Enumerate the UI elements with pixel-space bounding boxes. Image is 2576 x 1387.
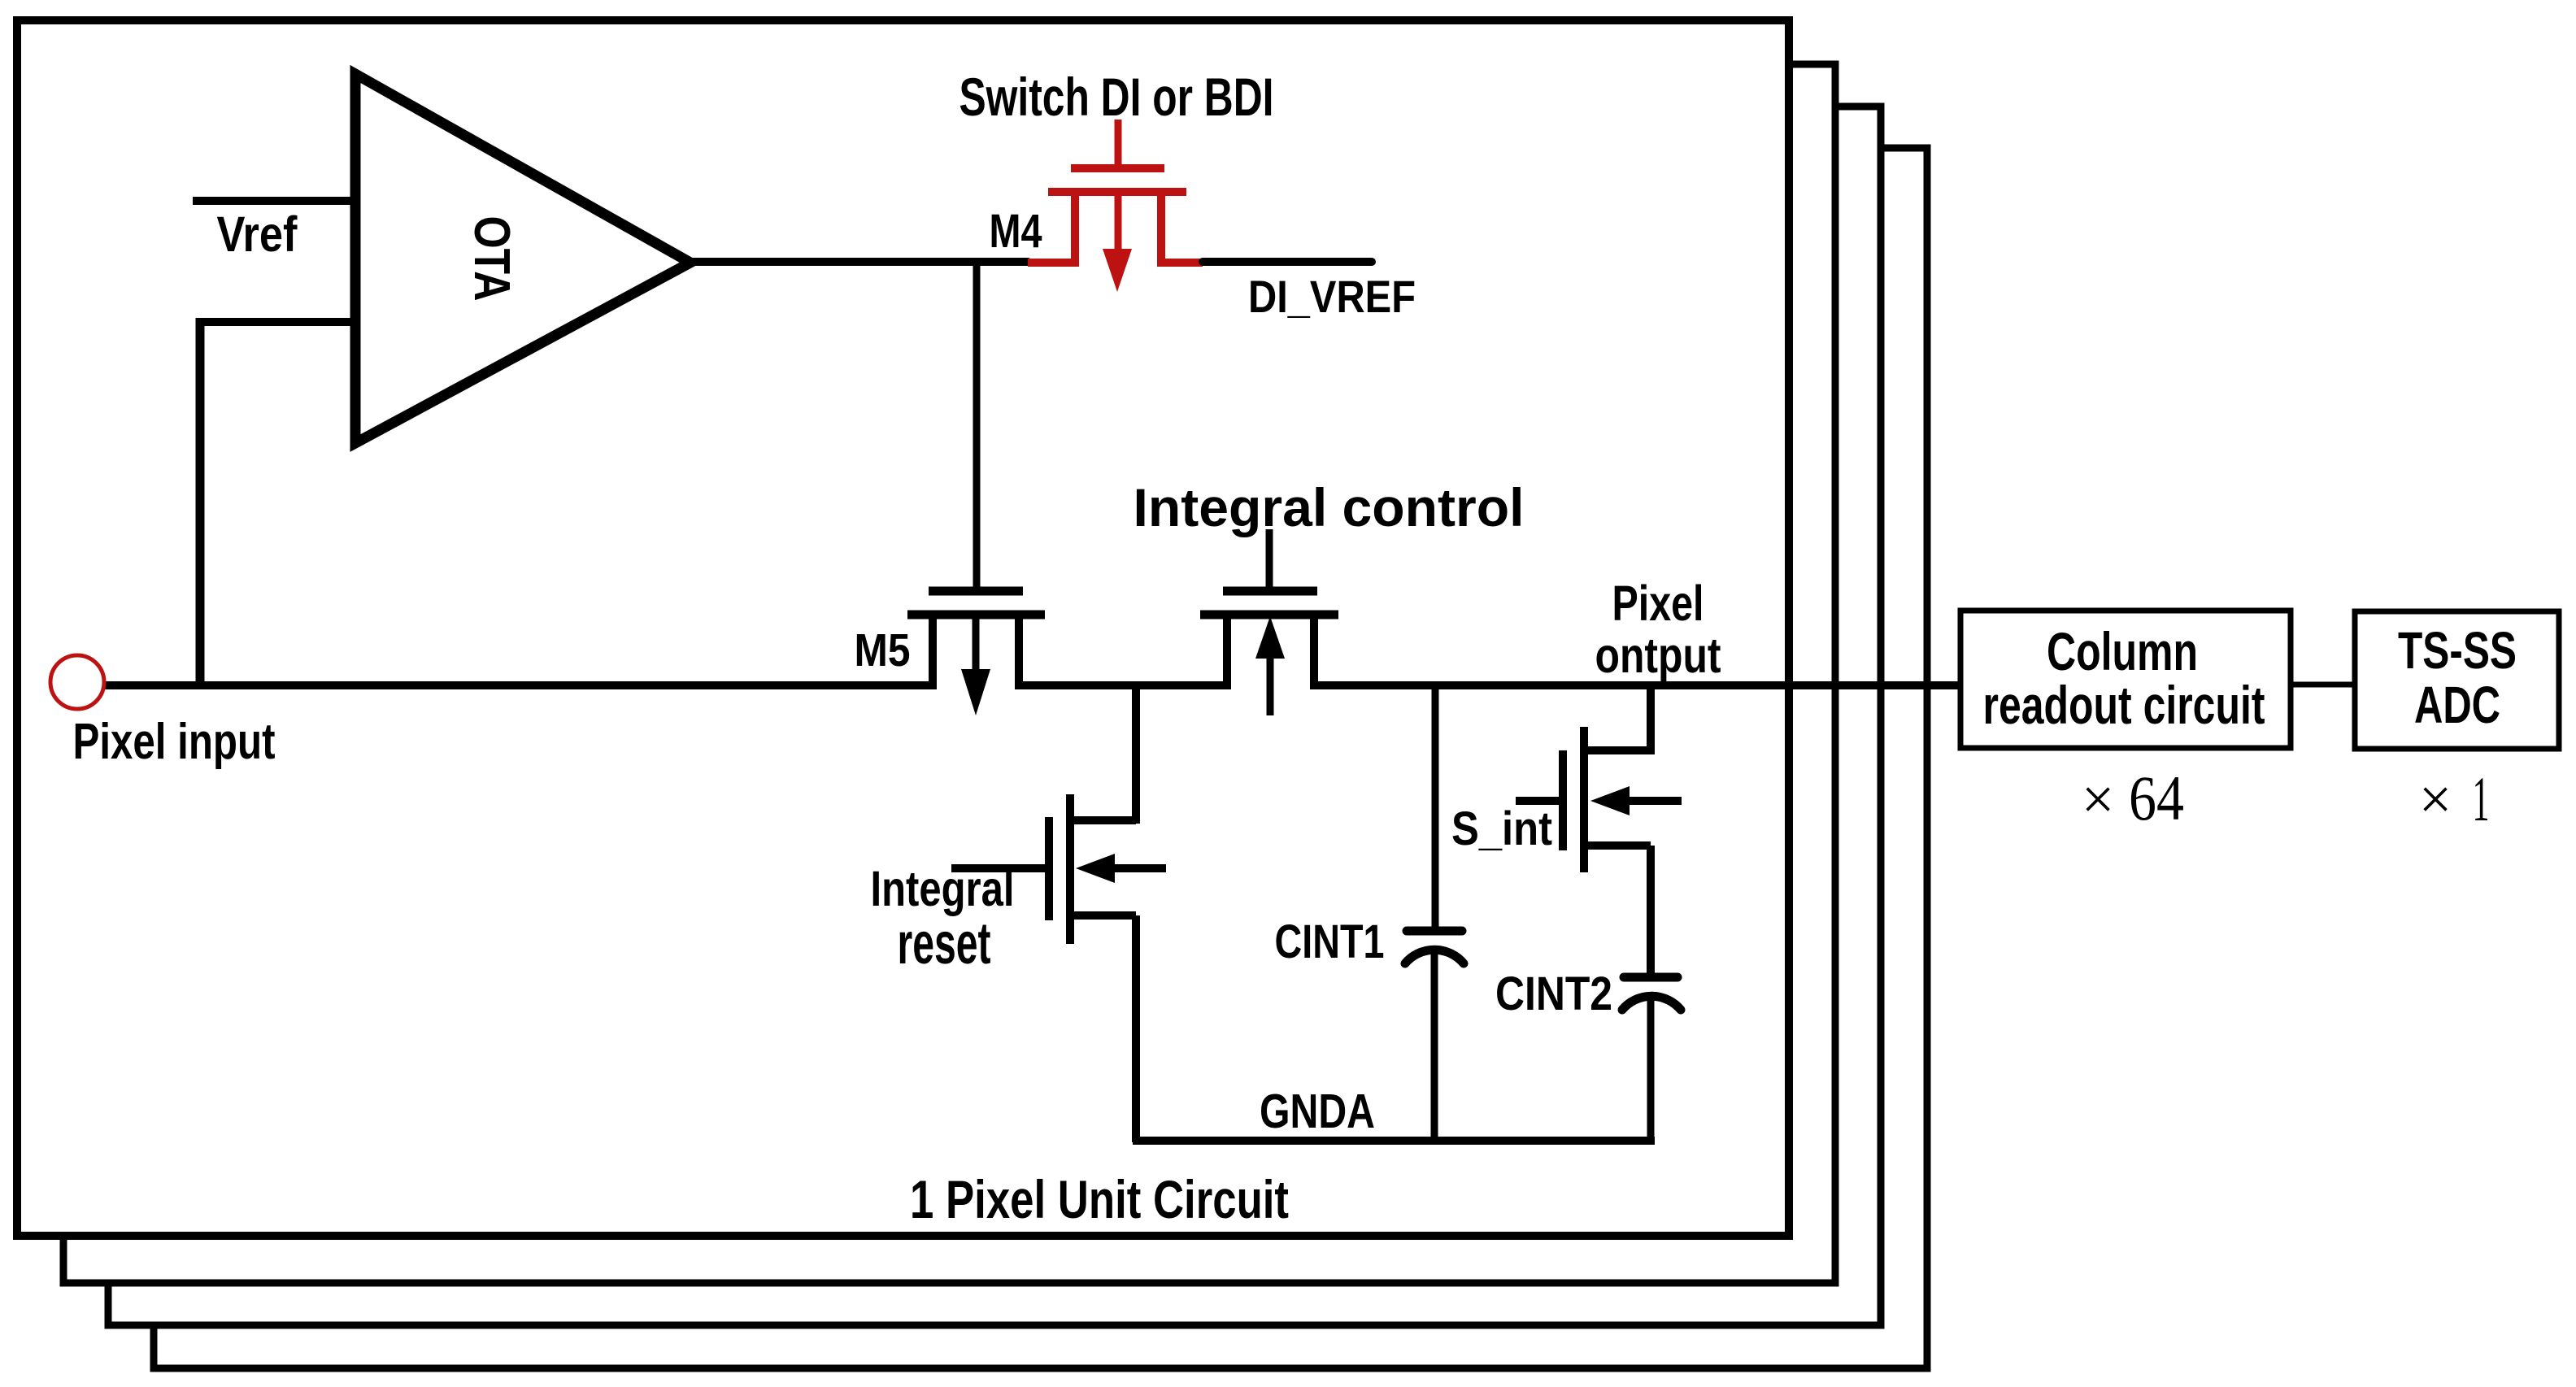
svg-text:Column: Column <box>2047 621 2198 681</box>
svg-text:CINT1: CINT1 <box>1275 915 1385 968</box>
svg-text:Pixel: Pixel <box>1612 576 1704 631</box>
svg-text:reset: reset <box>898 911 991 976</box>
svg-text:Integral: Integral <box>871 861 1015 916</box>
svg-text:×: × <box>2082 767 2115 832</box>
svg-text:CINT2: CINT2 <box>1495 967 1612 1020</box>
svg-text:TS-SS: TS-SS <box>2398 621 2517 680</box>
svg-text:1: 1 <box>2473 763 2490 834</box>
svg-text:Pixel input: Pixel input <box>73 714 276 770</box>
svg-text:Switch DI or BDI: Switch DI or BDI <box>959 67 1274 127</box>
svg-text:ontput: ontput <box>1595 628 1721 683</box>
svg-text:M4: M4 <box>990 205 1042 258</box>
svg-text:DI_VREF: DI_VREF <box>1248 271 1416 322</box>
svg-text:readout circuit: readout circuit <box>1983 675 2265 735</box>
svg-text:Integral control: Integral control <box>1134 477 1525 537</box>
svg-text:×: × <box>2419 767 2452 832</box>
svg-text:M5: M5 <box>855 624 911 676</box>
svg-text:GNDA: GNDA <box>1260 1085 1375 1138</box>
svg-text:64: 64 <box>2129 763 2184 833</box>
svg-text:1 Pixel Unit Circuit: 1 Pixel Unit Circuit <box>910 1169 1289 1229</box>
svg-text:ADC: ADC <box>2414 676 2500 734</box>
svg-text:OTA: OTA <box>463 216 520 302</box>
svg-text:S_int: S_int <box>1451 802 1552 855</box>
svg-text:Vref: Vref <box>217 207 298 262</box>
